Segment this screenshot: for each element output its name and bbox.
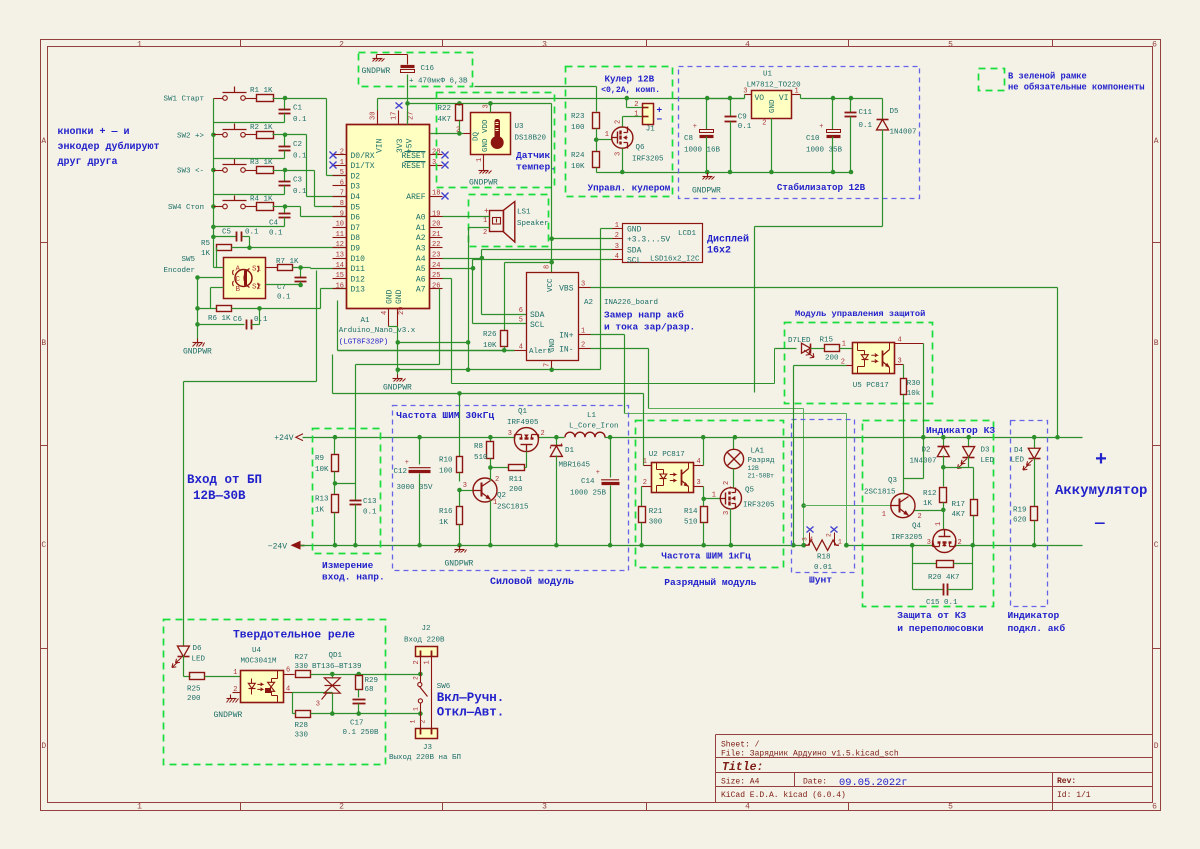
svg-text:RESET: RESET xyxy=(401,162,425,171)
svg-text:Q2: Q2 xyxy=(497,492,506,500)
svg-text:GNDPWR: GNDPWR xyxy=(469,179,498,188)
pin 2 GND U1 xyxy=(771,119,773,173)
pin 26 A7 A1 xyxy=(430,288,443,290)
resistor R7 xyxy=(266,267,278,269)
green dashed box SSR xyxy=(164,620,386,765)
wire Q3 collector xyxy=(903,479,905,494)
pin 20 A1 A1 xyxy=(430,227,443,229)
diode D4 LED xyxy=(1034,438,1036,449)
svg-text:SCL: SCL xyxy=(627,257,642,266)
wire +5V vertical xyxy=(551,104,553,273)
wire D2 D3 node xyxy=(944,467,974,469)
svg-text:<0,2А, комп.: <0,2А, комп. xyxy=(601,86,660,95)
svg-text:R26: R26 xyxy=(483,331,497,339)
svg-text:R3 1K: R3 1K xyxy=(250,159,273,167)
pin 10 D7 A1 xyxy=(333,227,347,229)
svg-text:подкл. акб: подкл. акб xyxy=(1008,623,1066,634)
svg-text:Разрядный модуль: Разрядный модуль xyxy=(664,577,756,588)
svg-text:C11: C11 xyxy=(859,109,873,117)
svg-text:4: 4 xyxy=(809,536,813,543)
svg-text:8: 8 xyxy=(544,265,552,269)
svg-text:A5: A5 xyxy=(416,265,426,274)
svg-text:Q6: Q6 xyxy=(636,144,646,152)
diode D6 LED xyxy=(177,646,189,657)
svg-text:Вход 220В: Вход 220В xyxy=(404,637,445,645)
svg-text:2: 2 xyxy=(918,513,922,521)
green dashed box legend xyxy=(979,69,1005,91)
wire Q6 drain to J1 xyxy=(622,117,624,127)
svg-text:LED: LED xyxy=(981,457,995,465)
svg-text:D6: D6 xyxy=(351,214,361,223)
svg-text:MBR1645: MBR1645 xyxy=(559,462,591,470)
svg-text:2: 2 xyxy=(233,686,237,694)
wire encoder gnd bus xyxy=(197,278,199,339)
diode D5 1N4007 xyxy=(882,99,884,120)
svg-text:5: 5 xyxy=(340,169,344,177)
no-connect D0 D1 xyxy=(330,152,337,159)
svg-text:L1: L1 xyxy=(587,412,597,420)
svg-text:D0/RX: D0/RX xyxy=(351,152,375,161)
svg-text:INA226_board: INA226_board xyxy=(604,299,658,307)
svg-text:Size: A4: Size: A4 xyxy=(721,778,760,787)
svg-text:C14: C14 xyxy=(581,478,595,486)
svg-text:D4: D4 xyxy=(351,193,361,202)
green dashed box cooler xyxy=(566,67,673,197)
svg-text:9: 9 xyxy=(340,210,344,218)
svg-text:D10: D10 xyxy=(351,255,366,264)
wire cooler gate chain xyxy=(475,86,597,88)
svg-text:IRF3205: IRF3205 xyxy=(632,156,664,164)
svg-text:18: 18 xyxy=(432,190,440,198)
svg-text:R22: R22 xyxy=(438,105,452,113)
wire Q5 source xyxy=(730,509,732,546)
pin 2 INminus A2 xyxy=(579,348,591,350)
encoder SW5 xyxy=(224,258,266,299)
optocoupler U5 PC817 xyxy=(853,343,895,374)
svg-text:Date:: Date: xyxy=(803,778,827,787)
svg-text:13: 13 xyxy=(336,252,344,260)
svg-text:D8: D8 xyxy=(351,234,361,243)
wire LA1 to Q5 xyxy=(733,469,735,488)
svg-text:+: + xyxy=(405,459,409,467)
svg-text:1: 1 xyxy=(137,40,142,49)
svg-text:D2: D2 xyxy=(351,172,361,181)
resistor R28 xyxy=(296,711,311,718)
blue dashed box stabilizer xyxy=(679,67,920,199)
svg-text:J2: J2 xyxy=(422,625,431,633)
wire S1 to D11 xyxy=(293,267,311,269)
wire Q2 collector xyxy=(490,468,492,481)
wire Q6 source xyxy=(622,149,624,173)
svg-text:D7: D7 xyxy=(351,224,361,233)
svg-text:200: 200 xyxy=(825,355,839,363)
capacitor C9 xyxy=(730,99,732,117)
svg-text:Sheet: /: Sheet: / xyxy=(721,741,760,750)
diode D7 LED xyxy=(775,348,797,350)
svg-text:Защита от КЗ: Защита от КЗ xyxy=(897,610,966,621)
svg-text:энкодер дублируют: энкодер дублируют xyxy=(58,140,160,153)
wire speaker pin2 to gnd rail xyxy=(469,227,490,229)
svg-text:R6 1K: R6 1K xyxy=(208,315,231,323)
svg-text:100: 100 xyxy=(571,124,585,132)
svg-text:1: 1 xyxy=(634,111,638,119)
pin 1 INplus A2 xyxy=(579,334,591,336)
svg-text:VIN: VIN xyxy=(376,138,385,153)
svg-text:620: 620 xyxy=(1013,517,1027,525)
pin 23 A4 A1 xyxy=(430,258,443,260)
svg-text:1: 1 xyxy=(233,669,237,677)
resistor R23 xyxy=(593,113,600,129)
svg-text:1: 1 xyxy=(476,158,484,162)
svg-text:100: 100 xyxy=(439,468,453,476)
blue dashed box shunt xyxy=(792,420,855,573)
svg-text:друг друга: друг друга xyxy=(58,157,118,168)
svg-text:R16: R16 xyxy=(439,508,453,516)
svg-text:R7 1K: R7 1K xyxy=(276,258,299,266)
wire INminus sense xyxy=(591,348,649,350)
pin 2 U4 xyxy=(233,692,241,694)
speaker LS1 xyxy=(490,211,504,232)
svg-text:IRF4905: IRF4905 xyxy=(507,419,539,427)
svg-text:Speaker: Speaker xyxy=(517,220,549,228)
svg-text:C4: C4 xyxy=(269,220,279,228)
svg-text:DQ: DQ xyxy=(473,131,481,141)
wire cooler bottom rail xyxy=(597,172,708,174)
svg-text:+: + xyxy=(819,123,823,131)
svg-text:1K: 1K xyxy=(439,519,449,527)
svg-text:4: 4 xyxy=(697,458,701,466)
resistor R15 xyxy=(811,348,825,350)
svg-text:VO: VO xyxy=(755,94,765,103)
svg-text:2: 2 xyxy=(826,533,833,537)
svg-text:3: 3 xyxy=(581,281,585,289)
wire LCD vcc xyxy=(552,238,613,240)
wire SDA A4 xyxy=(443,258,482,260)
svg-text:2: 2 xyxy=(762,120,766,128)
svg-text:510: 510 xyxy=(474,454,488,462)
svg-text:R8: R8 xyxy=(474,443,483,451)
svg-text:3: 3 xyxy=(508,430,512,438)
svg-text:23: 23 xyxy=(432,252,440,260)
svg-text:D3: D3 xyxy=(981,447,991,455)
wire pin4 to R28 xyxy=(292,693,294,714)
svg-text:D: D xyxy=(41,742,46,751)
svg-text:2: 2 xyxy=(483,229,487,237)
pin 21 A2 A1 xyxy=(430,237,443,239)
pin 3 VO U1 xyxy=(745,94,752,96)
svg-text:LSD16x2_I2C: LSD16x2_I2C xyxy=(650,256,700,264)
svg-text:3000 35V: 3000 35V xyxy=(397,484,434,492)
pin 1 LCD1 xyxy=(613,228,623,230)
svg-text:2SC1815: 2SC1815 xyxy=(497,504,529,512)
svg-text:8: 8 xyxy=(340,200,344,208)
svg-text:темпер.: темпер. xyxy=(516,162,556,173)
svg-text:12В: 12В xyxy=(748,465,760,472)
svg-text:2: 2 xyxy=(541,430,545,438)
pin 19 A0 A1 xyxy=(430,216,443,218)
svg-text:2SC1815: 2SC1815 xyxy=(864,489,896,497)
svg-text:Q5: Q5 xyxy=(745,487,755,495)
resistor R20 xyxy=(912,546,914,564)
svg-text:24: 24 xyxy=(432,262,440,270)
svg-text:R11: R11 xyxy=(509,476,523,484)
svg-text:Title:: Title: xyxy=(722,761,763,774)
svg-text:3: 3 xyxy=(898,357,902,365)
svg-text:GNDPWR: GNDPWR xyxy=(692,187,721,196)
switch SW2 xyxy=(214,134,223,136)
svg-text:1: 1 xyxy=(643,458,647,466)
title block xyxy=(716,734,1153,736)
svg-text:LS1: LS1 xyxy=(517,209,531,217)
svg-text:A: A xyxy=(235,266,240,274)
svg-text:12В—30В: 12В—30В xyxy=(193,489,246,503)
svg-text:SW1 Старт: SW1 Старт xyxy=(163,96,204,104)
switch SW6 xyxy=(418,682,422,686)
svg-text:Частота ШИМ 1кГц: Частота ШИМ 1кГц xyxy=(661,551,751,562)
svg-text:R19: R19 xyxy=(1013,507,1027,515)
svg-text:+24V: +24V xyxy=(274,434,293,443)
svg-text:R20 4К7: R20 4К7 xyxy=(928,574,960,582)
svg-text:1000 25В: 1000 25В xyxy=(570,490,607,498)
resistor R24 xyxy=(593,152,600,168)
resistor R26 xyxy=(504,263,506,331)
svg-text:BT136—BT139: BT136—BT139 xyxy=(312,663,362,671)
svg-text:1: 1 xyxy=(137,803,142,812)
svg-text:4: 4 xyxy=(615,253,619,261)
svg-text:и переполюсовки: и переполюсовки xyxy=(897,623,984,634)
wire VBS to battery plus xyxy=(591,287,1058,289)
wire R5 C5 to D9 xyxy=(249,237,251,248)
svg-text:Q4: Q4 xyxy=(912,523,922,531)
wire DQ xyxy=(431,133,464,135)
svg-text:кнопки + — и: кнопки + — и xyxy=(58,127,130,138)
svg-text:0.1: 0.1 xyxy=(293,188,307,196)
svg-text:C15 0.1: C15 0.1 xyxy=(926,599,958,607)
resistor R11 xyxy=(491,467,509,469)
svg-text:U5 PC817: U5 PC817 xyxy=(853,382,889,390)
svg-text:15: 15 xyxy=(336,272,344,280)
svg-text:R5: R5 xyxy=(201,240,211,248)
svg-text:1K: 1K xyxy=(923,500,933,508)
wire SW4 to D5 xyxy=(285,206,301,208)
svg-text:J1: J1 xyxy=(646,126,656,134)
svg-text:5: 5 xyxy=(948,40,953,49)
svg-text:J3: J3 xyxy=(423,744,433,752)
svg-text:4: 4 xyxy=(745,803,750,812)
svg-text:D2: D2 xyxy=(922,447,931,455)
svg-text:A1: A1 xyxy=(361,317,371,325)
svg-text:200: 200 xyxy=(187,695,201,703)
svg-text:Датчик: Датчик xyxy=(516,150,551,161)
svg-text:6: 6 xyxy=(286,667,290,675)
resistor R12 xyxy=(943,468,945,487)
svg-text:1: 1 xyxy=(424,660,432,664)
svg-text:16x2: 16x2 xyxy=(707,246,731,257)
svg-text:A6: A6 xyxy=(416,275,426,284)
svg-text:0.1: 0.1 xyxy=(293,116,307,124)
svg-text:2: 2 xyxy=(339,40,344,49)
wire encoder pin B xyxy=(211,287,224,289)
svg-text:Q3: Q3 xyxy=(888,477,898,485)
svg-text:GNDPWR: GNDPWR xyxy=(383,384,412,393)
capacitor C1 xyxy=(284,99,286,110)
wire SW2 to D3 xyxy=(285,134,307,136)
svg-text:LED: LED xyxy=(1011,457,1025,465)
green dashed box LS1 xyxy=(469,195,549,247)
svg-text:C17: C17 xyxy=(350,720,364,728)
svg-text:C2: C2 xyxy=(293,141,302,149)
svg-text:R24: R24 xyxy=(571,152,585,160)
svg-text:Индикатор КЗ: Индикатор КЗ xyxy=(926,425,995,436)
svg-text:C5: C5 xyxy=(222,229,232,237)
wire encoder pin A xyxy=(214,267,224,269)
svg-text:1K: 1K xyxy=(201,250,211,258)
svg-text:2: 2 xyxy=(615,232,619,240)
svg-text:SW3 <-: SW3 <- xyxy=(177,168,204,176)
wire R30 node xyxy=(904,478,924,480)
pin 2 U2 xyxy=(642,486,652,488)
svg-text:C1: C1 xyxy=(293,105,303,113)
svg-text:U4: U4 xyxy=(252,647,262,655)
blue dashed box power module xyxy=(393,406,629,571)
pin 3 LCD1 xyxy=(613,249,623,251)
pin 4 GND A1 xyxy=(388,309,390,327)
wire R23 R24 xyxy=(596,129,598,152)
svg-text:LA1: LA1 xyxy=(751,448,765,456)
svg-text:09.05.2022г: 09.05.2022г xyxy=(839,777,908,789)
svg-text:1: 1 xyxy=(882,511,886,519)
wire U5 pin2 sense xyxy=(794,365,847,367)
svg-text:U2 PC817: U2 PC817 xyxy=(649,451,685,459)
resistor R3 xyxy=(257,167,274,174)
svg-text:2: 2 xyxy=(495,476,499,484)
svg-text:1: 1 xyxy=(605,131,609,139)
svg-text:R29: R29 xyxy=(365,677,379,685)
svg-text:A7: A7 xyxy=(416,286,426,295)
svg-text:C6: C6 xyxy=(233,316,243,324)
capacitor C8 xyxy=(706,99,708,130)
svg-text:21: 21 xyxy=(432,231,440,239)
blue dashed box batt indicator xyxy=(1011,421,1048,607)
wire Q4 gate xyxy=(943,510,945,530)
diode D2 1N4007 xyxy=(943,438,945,447)
svg-text:2: 2 xyxy=(723,481,731,485)
green dashed box C16 xyxy=(359,53,473,87)
pin 2 D0/RX A1 xyxy=(333,154,347,156)
svg-text:VI: VI xyxy=(779,94,789,103)
svg-text:A: A xyxy=(41,137,46,146)
wire Alert xyxy=(338,350,515,352)
resistor R2 xyxy=(257,132,274,139)
svg-text:17: 17 xyxy=(391,112,399,120)
capacitor C2 xyxy=(284,135,286,147)
svg-text:7: 7 xyxy=(544,363,552,367)
svg-text:300: 300 xyxy=(649,519,663,527)
svg-text:Q1: Q1 xyxy=(518,408,528,416)
ground GNDPWR C16 xyxy=(376,55,378,59)
ground GNDPWR stab xyxy=(707,173,709,177)
svg-text:2: 2 xyxy=(581,341,585,349)
svg-text:+: + xyxy=(1095,449,1107,472)
pin 4 U5 xyxy=(895,343,924,345)
wire SW1 to D2 xyxy=(285,98,327,100)
svg-text:IN+: IN+ xyxy=(559,332,574,341)
wire -24V rail xyxy=(301,545,806,547)
capacitor C4 xyxy=(284,207,286,214)
svg-text:D1/TX: D1/TX xyxy=(351,162,375,171)
svg-text:R28: R28 xyxy=(295,722,309,730)
svg-text:1K: 1K xyxy=(315,507,325,515)
pin 4 U2 xyxy=(694,465,704,467)
pin 1 GND U3 xyxy=(483,155,485,167)
svg-text:20: 20 xyxy=(432,221,440,229)
capacitor C10 xyxy=(832,99,834,130)
svg-text:6: 6 xyxy=(1152,803,1157,812)
svg-text:330: 330 xyxy=(295,732,309,740)
svg-text:IN-: IN- xyxy=(559,345,573,354)
capacitor C7 xyxy=(300,268,302,278)
svg-text:2: 2 xyxy=(420,720,427,724)
wire INplus sense xyxy=(591,334,625,336)
svg-text:3: 3 xyxy=(483,104,491,108)
svg-text:Id: 1/1: Id: 1/1 xyxy=(1057,791,1091,800)
no-connect RESET AREF xyxy=(442,152,449,159)
wire Q5 gate xyxy=(704,498,721,500)
IC U3 DS18B20 xyxy=(464,133,471,135)
svg-text:D9: D9 xyxy=(351,245,361,254)
svg-text:4: 4 xyxy=(286,686,290,694)
svg-text:S2: S2 xyxy=(252,284,261,292)
svg-text:GND: GND xyxy=(627,226,642,235)
svg-text:не обязательные компоненты: не обязательные компоненты xyxy=(1008,82,1145,93)
pin 28 RESET A1 xyxy=(430,154,443,156)
svg-text:VDD: VDD xyxy=(482,119,490,133)
svg-text:3: 3 xyxy=(697,479,701,487)
svg-text:IRF3205: IRF3205 xyxy=(891,534,923,542)
svg-text:R23: R23 xyxy=(571,113,585,121)
capacitor C11 xyxy=(850,99,852,113)
svg-text:0.1: 0.1 xyxy=(859,122,873,130)
svg-text:6: 6 xyxy=(340,179,344,187)
svg-text:10K: 10K xyxy=(571,163,585,171)
pin 3 U5 xyxy=(895,364,904,366)
pin 3 U2 xyxy=(694,486,704,488)
svg-text:11: 11 xyxy=(336,231,344,239)
pin 16 D13 A1 xyxy=(333,288,347,290)
svg-text:(LGT8F328P): (LGT8F328P) xyxy=(339,339,389,347)
ground GNDPWR U4 xyxy=(230,695,232,699)
green dashed box protection xyxy=(863,421,994,607)
pin 4 LCD1 xyxy=(613,259,623,261)
wire U5 pin4 to batt rail xyxy=(923,344,925,479)
svg-text:0.01: 0.01 xyxy=(814,564,833,572)
svg-text:3V3: 3V3 xyxy=(396,138,405,153)
svg-text:C9: C9 xyxy=(738,114,747,122)
capacitor C3 xyxy=(284,171,286,182)
green dashed box U3 xyxy=(437,93,555,188)
svg-text:SDA: SDA xyxy=(530,311,545,320)
svg-text:22: 22 xyxy=(432,241,440,249)
svg-text:1: 1 xyxy=(340,159,344,167)
svg-text:A: A xyxy=(1154,137,1159,146)
svg-text:0.1: 0.1 xyxy=(738,123,752,131)
svg-text:MOC3041M: MOC3041M xyxy=(241,658,278,666)
pin 18 AREF A1 xyxy=(430,196,443,198)
svg-text:10k: 10k xyxy=(907,390,921,398)
svg-text:Вход от БП: Вход от БП xyxy=(187,473,262,487)
green dashed box control module xyxy=(785,323,933,404)
triac QD1 xyxy=(332,675,334,679)
